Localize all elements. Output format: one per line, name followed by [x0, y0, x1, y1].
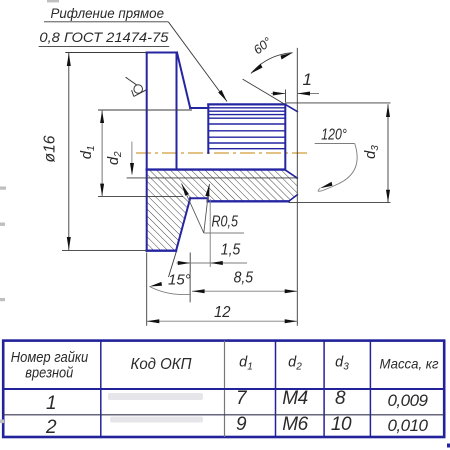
- d3 upper ext: [286, 102, 391, 104]
- R0,5 leader A: [182, 184, 204, 234]
- 1,5 right arrow: [210, 261, 223, 265]
- svg-text:d2: d2: [106, 151, 124, 165]
- svg-text:М6: М6: [282, 414, 308, 435]
- upper taper: [177, 53, 190, 109]
- 1,5 dim line: [177, 262, 248, 264]
- right end face / ext line: [296, 48, 298, 326]
- d2 bottom: [130, 163, 134, 176]
- phi16 dim line: [68, 53, 70, 251]
- 12 left ext: [146, 253, 148, 326]
- bottom-right corner blue mark: [447, 444, 450, 448]
- knurl leader: [168, 22, 227, 102]
- 60deg arc: [251, 53, 293, 74]
- 15deg arc: [150, 287, 191, 295]
- 120 arc arrow: [320, 182, 332, 189]
- section hatch: [147, 170, 298, 251]
- R05 arrow B: [205, 184, 209, 197]
- 8,5 left arrow: [192, 289, 205, 293]
- roughness symbol: [126, 77, 146, 96]
- thread major line (thin): [127, 177, 298, 179]
- d1 dim line: [101, 110, 103, 197]
- svg-text:120°: 120°: [321, 127, 347, 144]
- d2 dim line: [131, 142, 133, 174]
- scan artifacts on edges: [0, 0, 59, 423]
- svg-text:врезной: врезной: [25, 366, 73, 382]
- d1 bottom: [100, 184, 104, 197]
- knurl note underline 1: [44, 21, 168, 23]
- 15 arc arrow: [150, 282, 163, 287]
- svg-text:1: 1: [46, 393, 56, 414]
- svg-text:0,8 ГОСТ 21474-75: 0,8 ГОСТ 21474-75: [39, 30, 168, 45]
- R0,5 shelf: [204, 232, 244, 234]
- svg-text:d1: d1: [79, 145, 97, 159]
- svg-text:7: 7: [236, 388, 248, 409]
- part outline (blue): [147, 53, 298, 252]
- 1,5 ext right: [209, 199, 211, 267]
- hatch top / thread minor: [147, 168, 285, 170]
- d1 top: [100, 110, 104, 123]
- flange bottom: [147, 249, 176, 251]
- R05 arrow A: [182, 184, 189, 196]
- 8,5 dim line: [192, 290, 297, 292]
- 8,5 right arrow: [285, 289, 298, 293]
- svg-text:Номер гайки: Номер гайки: [11, 350, 89, 366]
- svg-text:10: 10: [331, 414, 352, 435]
- table data rows: [45, 388, 429, 438]
- 12 right arrow: [285, 319, 298, 323]
- svg-text:15°: 15°: [168, 272, 191, 289]
- 120deg shelf: [315, 143, 355, 145]
- svg-text:d1: d1: [239, 355, 253, 373]
- taper extension: [169, 252, 177, 277]
- svg-text:1,5: 1,5: [221, 242, 241, 259]
- svg-text:М4: М4: [282, 388, 307, 409]
- knurl left edge: [207, 105, 209, 153]
- flange left edge: [146, 53, 148, 251]
- svg-text:12: 12: [214, 304, 231, 321]
- phi16 bottom: [67, 237, 71, 250]
- "1" right arrow: [297, 92, 310, 96]
- d3 lower ext: [289, 202, 391, 204]
- R0,5 leader B: [204, 184, 210, 233]
- d3 top: [386, 104, 390, 117]
- knurl bottom: [208, 200, 289, 202]
- 60 arc high arrow: [281, 53, 293, 60]
- arcs: [150, 53, 358, 295]
- svg-text:Код ОКП: Код ОКП: [131, 356, 192, 373]
- knurl right edge: [284, 105, 286, 170]
- arrows: [67, 53, 390, 324]
- svg-text:d3: d3: [335, 355, 349, 373]
- knurl note underline 2: [39, 45, 170, 47]
- table header text: [11, 350, 439, 382]
- centerline: [136, 152, 310, 154]
- 12 dim line: [147, 320, 298, 322]
- extension and dimension thin lines: [39, 22, 391, 326]
- svg-text:60°: 60°: [251, 35, 275, 58]
- svg-text:2: 2: [45, 417, 57, 438]
- lower taper: [176, 198, 190, 251]
- table erased smudges: [108, 393, 203, 423]
- "1" left arrow: [273, 92, 286, 96]
- svg-text:9: 9: [236, 414, 247, 435]
- svg-text:0,010: 0,010: [387, 416, 428, 435]
- neck bottom: [190, 197, 208, 199]
- 15deg angle vertical leg: [189, 272, 191, 302]
- "1" dim line: [271, 93, 285, 95]
- d1 upper ext: [98, 109, 192, 111]
- table grid: [3, 341, 444, 437]
- bottom chamfer: [289, 195, 298, 202]
- 12 left arrow: [147, 319, 160, 323]
- svg-text:ø16: ø16: [42, 135, 59, 162]
- countersink slant: [285, 170, 298, 179]
- svg-text:8: 8: [335, 388, 346, 409]
- svg-text:d2: d2: [288, 355, 302, 373]
- step: [207, 198, 209, 201]
- svg-text:d3: d3: [363, 145, 381, 159]
- phi16 bottom ext: [62, 249, 147, 251]
- 120deg arc: [318, 144, 357, 192]
- phi16 top ext: [65, 52, 146, 54]
- "1" dim ext: [285, 90, 287, 103]
- knurl lines: [208, 108, 285, 149]
- d3 dim line: [387, 104, 389, 202]
- d3 bottom: [386, 190, 390, 203]
- svg-text:R0,5: R0,5: [212, 214, 239, 231]
- knurl top: [208, 103, 285, 105]
- svg-text:Масса, кг: Масса, кг: [380, 356, 439, 372]
- d1 lower ext: [98, 196, 183, 198]
- knurl leader arrow: [218, 90, 227, 102]
- 1,5 ext left: [189, 253, 191, 303]
- phi16 top: [67, 53, 71, 66]
- flange right edge: [176, 53, 178, 170]
- svg-text:0,009: 0,009: [387, 391, 428, 410]
- svg-text:1: 1: [303, 70, 312, 89]
- 60deg chamfer extension leg: [243, 79, 285, 104]
- top chamfer: [285, 105, 297, 112]
- drawing texts: [39, 6, 381, 321]
- flange top: [147, 52, 177, 54]
- svg-text:8,5: 8,5: [234, 270, 254, 287]
- svg-text:Рифление прямое: Рифление прямое: [51, 6, 165, 21]
- 60 arc low arrow: [251, 64, 263, 74]
- neck top: [190, 107, 208, 109]
- 1,5 left arrow: [178, 261, 191, 265]
